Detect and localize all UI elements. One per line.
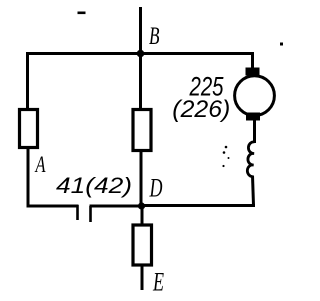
node B <box>137 23 160 57</box>
inductor field coil <box>247 142 254 177</box>
wire contact to node D <box>90 205 142 208</box>
wire node D to motor branch <box>141 204 255 207</box>
svg-text:(226): (226) <box>172 96 230 123</box>
svg-text:41(42): 41(42) <box>56 173 132 198</box>
svg-text:A: A <box>34 152 46 178</box>
wire top bus <box>26 52 254 55</box>
resistor center <box>133 110 151 151</box>
svg-text:D: D <box>149 173 163 203</box>
wire A to contact <box>27 205 79 208</box>
wire coil to bottom corner <box>253 176 254 206</box>
wire bus to motor <box>251 52 254 69</box>
wire node D to resistor E <box>141 206 144 225</box>
svg-text:B: B <box>149 23 160 50</box>
wire A lower lead <box>27 148 30 208</box>
wire left branch drop <box>26 52 29 109</box>
node D <box>138 173 163 210</box>
motor M 225 (226) <box>172 68 274 124</box>
switch contact 41(42) <box>56 173 132 222</box>
wire motor to field coil <box>253 119 256 143</box>
resistor A <box>20 110 46 179</box>
wire supply feed <box>139 7 142 54</box>
resistor E <box>133 225 164 296</box>
svg-text:E: E <box>152 266 164 296</box>
wire B to center resistor <box>139 54 142 110</box>
wire E bottom lead <box>141 264 144 290</box>
wire center resistor to node D <box>140 151 143 207</box>
